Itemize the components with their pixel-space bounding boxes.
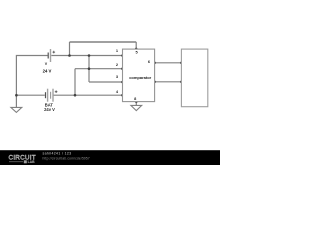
wire left rail to ground: [16, 56, 47, 108]
wire battery V plus to pin 1: [51, 55, 122, 57]
svg-text:24v V: 24v V: [44, 107, 55, 112]
node junction at pin 6: [153, 62, 156, 65]
ground (comparator pin 8): [131, 105, 142, 110]
node junction BAT row branch: [74, 94, 77, 97]
watermark bar: [0, 150, 220, 165]
node junction load left top: [180, 62, 183, 65]
svg-text:sahil4241 / 123: sahil4241 / 123: [43, 151, 72, 155]
node junction load left bottom: [180, 81, 183, 84]
wire left branch down: [74, 69, 76, 96]
node junction at pin 5: [135, 48, 138, 51]
node junction V+ branch up: [68, 54, 71, 57]
svg-text:comparator: comparator: [129, 75, 151, 80]
svg-text:LAB: LAB: [28, 160, 36, 164]
wire pin 6 to load: [155, 62, 182, 64]
wire mid branch to pin 3 level: [88, 69, 90, 82]
op-amp U1 comparator box: [123, 49, 155, 102]
wire pin 7 to load: [155, 81, 182, 83]
node junction at pin 1: [121, 54, 124, 57]
node junction at pin 8: [135, 100, 138, 103]
ground (left): [11, 107, 22, 112]
wire node row pin 2: [75, 68, 123, 70]
svg-text:http://circuitlab.com/cde/5957: http://circuitlab.com/cde/5957: [43, 156, 90, 160]
battery BAT (bottom): [44, 89, 57, 112]
node junction at pin 4: [121, 94, 124, 97]
CircuitLab logo: [9, 155, 36, 165]
wire pin 8 stem: [135, 102, 137, 106]
wire battery V plus branch up: [69, 42, 71, 56]
node junction at pin 2: [121, 67, 124, 70]
battery V (top): [43, 49, 56, 73]
load box (right): [181, 49, 207, 107]
node junction mid row: [88, 67, 91, 70]
wire BAT plus to pin 4: [53, 94, 122, 96]
wire top loop horizontal: [70, 41, 137, 43]
wire pin5 drop: [135, 42, 137, 49]
svg-text:24 V: 24 V: [43, 68, 52, 73]
node junction at pin 3: [121, 81, 124, 84]
node junction V+ branch down: [88, 54, 91, 57]
wire BAT row left: [16, 94, 44, 96]
node junction left rail: [15, 94, 18, 97]
node junction at pin 7: [153, 81, 156, 84]
wire pin 3 row: [89, 81, 123, 83]
wire mid branch down: [88, 56, 90, 69]
